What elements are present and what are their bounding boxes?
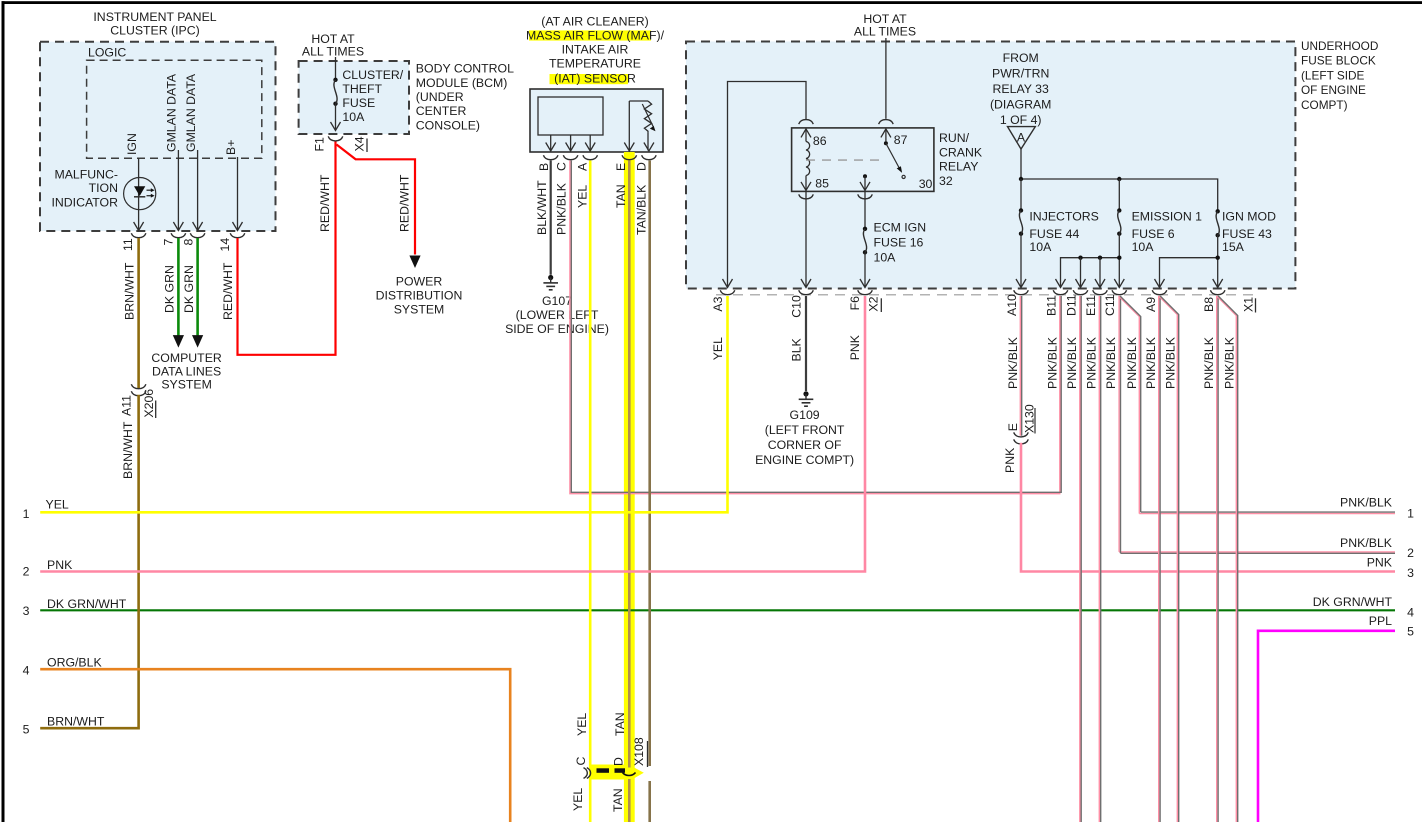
svg-text:(IAT) SENSOR: (IAT) SENSOR — [554, 71, 636, 85]
svg-text:TAN/BLK: TAN/BLK — [634, 184, 648, 235]
wire RED/WHT to power distribution — [337, 145, 416, 255]
svg-text:C11: C11 — [1103, 294, 1117, 316]
svg-text:TION: TION — [89, 181, 118, 195]
svg-text:BLK/WHT: BLK/WHT — [535, 180, 549, 235]
highlight chevron at X108 — [634, 767, 644, 778]
svg-text:G107: G107 — [542, 294, 572, 308]
svg-text:IGN: IGN — [125, 133, 139, 155]
svg-text:MALFUNC-: MALFUNC- — [54, 168, 118, 182]
IAT thermistor branch — [628, 101, 630, 151]
svg-text:CRANK: CRANK — [939, 145, 983, 159]
svg-text:ORG/BLK: ORG/BLK — [47, 656, 102, 670]
relay pin connectors bottom — [799, 194, 814, 199]
wire PPL to row 5 — [1258, 631, 1395, 822]
svg-text:TAN: TAN — [613, 712, 627, 736]
svg-text:COMPT): COMPT) — [1301, 98, 1348, 112]
emission sub-bus — [1061, 258, 1120, 287]
wire YEL A3 to row 1 — [40, 296, 727, 512]
svg-text:MASS AIR FLOW (MAF)/: MASS AIR FLOW (MAF)/ — [526, 29, 665, 43]
page border top — [2, 1, 1422, 4]
svg-text:SYSTEM: SYSTEM — [394, 303, 445, 317]
IAT thermistor resistor — [644, 101, 651, 133]
svg-text:LOGIC: LOGIC — [88, 46, 126, 60]
highlight TAN wire band lower — [624, 780, 635, 823]
svg-text:FUSE: FUSE — [342, 96, 375, 110]
wire hot feed to 87 — [885, 38, 887, 119]
svg-text:INDICATOR: INDICATOR — [52, 196, 119, 210]
wire PNK F6 to row 2 — [40, 296, 865, 572]
svg-text:TAN: TAN — [614, 184, 628, 208]
ign mod fuse 43 — [1216, 209, 1220, 213]
underhood fuse block fill+dashed border — [686, 42, 1295, 289]
ground G107 — [548, 275, 553, 280]
svg-text:POWER: POWER — [396, 275, 443, 289]
wire BLK/WHT — [550, 161, 552, 275]
wire RED/WHT pin14 — [238, 142, 336, 355]
svg-text:BRN/WHT: BRN/WHT — [121, 421, 135, 479]
svg-text:PNK/BLK: PNK/BLK — [1202, 336, 1216, 389]
svg-text:PNK/BLK: PNK/BLK — [1163, 336, 1177, 389]
svg-text:(LOWER LEFT: (LOWER LEFT — [516, 308, 599, 322]
fuse bus — [1021, 179, 1218, 211]
svg-text:ALL TIMES: ALL TIMES — [302, 45, 364, 59]
svg-text:RUN/: RUN/ — [939, 131, 970, 145]
svg-text:10A: 10A — [874, 251, 897, 265]
svg-text:RED/WHT: RED/WHT — [318, 174, 332, 232]
svg-text:MODULE (BCM): MODULE (BCM) — [416, 76, 508, 90]
arrow power distribution — [409, 256, 420, 269]
wire bus to injectors fuse — [1020, 179, 1022, 210]
MAF inner module — [538, 97, 603, 135]
svg-text:PNK/BLK: PNK/BLK — [1340, 495, 1393, 509]
svg-text:IGN MOD: IGN MOD — [1222, 210, 1276, 224]
connector X206 — [131, 384, 146, 389]
svg-text:7: 7 — [161, 239, 175, 246]
svg-text:GMLAN DATA: GMLAN DATA — [165, 73, 179, 152]
svg-text:PNK/BLK: PNK/BLK — [1084, 336, 1098, 389]
svg-text:TAN: TAN — [611, 788, 625, 812]
svg-text:11: 11 — [121, 238, 135, 251]
svg-text:32: 32 — [939, 174, 953, 188]
svg-text:G109: G109 — [790, 408, 820, 422]
arrow computer data 2 — [192, 335, 203, 348]
svg-text:PNK/BLK: PNK/BLK — [1125, 336, 1139, 389]
svg-text:3: 3 — [23, 604, 30, 618]
connector X108 black tick 1 — [597, 768, 610, 773]
arrow computer data 1 — [173, 335, 184, 348]
ground G109 — [803, 391, 808, 396]
wire DK GRN pin7 — [177, 238, 180, 336]
svg-text:2: 2 — [1407, 546, 1414, 560]
wire IGN pin 11 — [138, 158, 140, 230]
svg-text:FUSE BLOCK: FUSE BLOCK — [1301, 54, 1376, 68]
wire PNK/BLK A9 diagonal — [1159, 296, 1178, 822]
emission fuse 6 — [1117, 208, 1121, 212]
svg-text:F1: F1 — [313, 137, 327, 152]
svg-text:ALL TIMES: ALL TIMES — [854, 25, 916, 39]
svg-text:PNK: PNK — [1367, 556, 1393, 570]
svg-text:X4: X4 — [352, 136, 366, 151]
svg-text:10A: 10A — [342, 110, 365, 124]
wire BRN/WHT to row 5 — [40, 395, 138, 728]
svg-text:2: 2 — [23, 565, 30, 579]
svg-text:GMLAN DATA: GMLAN DATA — [184, 73, 198, 152]
svg-text:INTAKE AIR: INTAKE AIR — [562, 43, 629, 57]
svg-text:30: 30 — [919, 177, 933, 191]
wire relay 30 to ECM fuse — [864, 191, 866, 228]
svg-text:RELAY: RELAY — [939, 160, 978, 174]
svg-text:FUSE 16: FUSE 16 — [874, 236, 924, 250]
svg-text:E: E — [614, 163, 628, 171]
svg-text:YEL: YEL — [711, 337, 725, 360]
svg-text:RED/WHT: RED/WHT — [221, 262, 235, 320]
svg-text:SYSTEM: SYSTEM — [161, 377, 212, 391]
svg-text:E: E — [1006, 423, 1020, 431]
svg-text:PNK/BLK: PNK/BLK — [554, 182, 568, 235]
MAF internal wire B — [550, 135, 552, 151]
svg-text:RED/WHT: RED/WHT — [397, 174, 411, 232]
svg-text:PNK/BLK: PNK/BLK — [1144, 336, 1158, 389]
svg-text:SIDE OF ENGINE): SIDE OF ENGINE) — [505, 322, 609, 336]
svg-text:D11: D11 — [1064, 294, 1078, 316]
svg-text:DK GRN: DK GRN — [162, 265, 176, 313]
svg-text:PNK/BLK: PNK/BLK — [1065, 336, 1079, 389]
ECM IGN fuse 16 — [863, 227, 867, 231]
svg-text:5: 5 — [23, 723, 30, 737]
svg-text:DK GRN/WHT: DK GRN/WHT — [1313, 595, 1393, 609]
svg-text:PNK/BLK: PNK/BLK — [1045, 336, 1059, 389]
wire PNK/BLK C11 to row 2 — [1118, 296, 1120, 552]
svg-text:A: A — [1017, 131, 1026, 145]
svg-text:B8: B8 — [1202, 297, 1216, 312]
svg-text:PNK/BLK: PNK/BLK — [1340, 536, 1393, 550]
wire GMLAN pin 7 — [177, 150, 179, 231]
svg-text:ECM IGN: ECM IGN — [874, 221, 927, 235]
wire 86 branch to A3 — [728, 82, 807, 287]
svg-text:CENTER: CENTER — [416, 104, 467, 118]
highlight jog at X108 — [592, 765, 635, 780]
wire PNK/BLK D11 — [1079, 296, 1081, 822]
connector triangle A — [1008, 127, 1036, 149]
svg-text:A10: A10 — [1005, 294, 1019, 316]
svg-text:87: 87 — [894, 133, 908, 147]
svg-text:(LEFT FRONT: (LEFT FRONT — [765, 423, 845, 437]
wire PNK/BLK C11 diagonal to row 1 — [1119, 296, 1140, 514]
injectors fuse 44 — [1019, 208, 1023, 212]
BCM feed wire — [335, 57, 337, 80]
svg-text:YEL: YEL — [571, 788, 585, 811]
svg-text:FUSE 43: FUSE 43 — [1222, 227, 1272, 241]
fuse block pin connectors — [720, 290, 735, 295]
wire TAN MAF E — [628, 161, 631, 768]
svg-text:4: 4 — [1407, 606, 1414, 620]
IPC block fill+dashed border — [40, 42, 276, 231]
svg-text:PPL: PPL — [1369, 614, 1392, 628]
IPC pin connectors — [131, 233, 146, 238]
svg-text:5: 5 — [1407, 625, 1414, 639]
svg-text:CLUSTER (IPC): CLUSTER (IPC) — [110, 24, 200, 38]
ign mod sub-bus — [1160, 258, 1218, 287]
highlight IAT title — [550, 74, 629, 84]
svg-text:YEL: YEL — [575, 713, 589, 736]
svg-text:C: C — [554, 162, 568, 171]
svg-text:PNK: PNK — [848, 334, 862, 360]
connector face dashed line — [716, 294, 1253, 296]
wire PNK/BLK A9 — [1158, 296, 1160, 822]
wire A to fuse bus — [1020, 149, 1022, 179]
svg-text:A3: A3 — [711, 296, 725, 311]
svg-text:PWR/TRN: PWR/TRN — [992, 67, 1049, 81]
connector X108 D arc — [623, 773, 636, 776]
wire PNK/BLK MAF C to B11 — [570, 161, 1060, 494]
svg-text:YEL: YEL — [575, 185, 589, 208]
svg-text:1 OF 4): 1 OF 4) — [1000, 113, 1042, 127]
svg-text:BLK: BLK — [790, 337, 804, 361]
svg-text:A: A — [575, 162, 589, 171]
MAF/IAT sensor box — [530, 89, 663, 152]
svg-text:(DIAGRAM: (DIAGRAM — [990, 98, 1052, 112]
wire YEL MAF A — [589, 161, 592, 823]
svg-text:(LEFT SIDE: (LEFT SIDE — [1301, 68, 1364, 82]
wire row DK GRN/WHT (left 3 / right 4) — [40, 609, 1395, 611]
wire BRN/WHT pin11 to X206 — [137, 238, 140, 389]
wire row2 right PNK/BLK — [1119, 551, 1395, 553]
MAF internal wire A — [589, 135, 591, 151]
wire ORG/BLK row 4 — [40, 669, 510, 822]
LOGIC dashed box — [87, 60, 262, 158]
svg-text:B: B — [537, 163, 551, 171]
wire PNK/BLK B8 — [1216, 296, 1218, 822]
svg-text:EMISSION 1: EMISSION 1 — [1132, 210, 1203, 224]
MAF pin connectors — [543, 155, 558, 160]
svg-text:1: 1 — [23, 507, 30, 521]
svg-text:(UNDER: (UNDER — [416, 90, 464, 104]
svg-text:(AT AIR CLEANER): (AT AIR CLEANER) — [541, 15, 649, 29]
relay switch 87 — [881, 129, 891, 138]
wire PNK/BLK B8 diagonal — [1217, 296, 1237, 822]
svg-text:C10: C10 — [789, 295, 803, 318]
svg-text:F6: F6 — [848, 296, 862, 311]
svg-text:OF ENGINE: OF ENGINE — [1301, 83, 1366, 97]
svg-text:E11: E11 — [1084, 295, 1098, 316]
wire DK GRN pin8 — [196, 238, 199, 336]
svg-text:DISTRIBUTION: DISTRIBUTION — [376, 289, 463, 303]
wire PNK A10 to row 3 — [1021, 443, 1395, 572]
wire B+ pin 14 — [237, 157, 239, 231]
svg-text:THEFT: THEFT — [342, 82, 382, 96]
svg-text:RELAY 33: RELAY 33 — [993, 82, 1049, 96]
svg-text:CONSOLE): CONSOLE) — [416, 119, 480, 133]
svg-text:10A: 10A — [1029, 240, 1052, 254]
svg-text:A11: A11 — [120, 395, 134, 416]
MAF internal wire C — [570, 135, 572, 151]
highlight TAN wire band upper — [624, 152, 635, 765]
svg-text:X1: X1 — [1241, 297, 1255, 312]
highlight MAF title — [529, 30, 651, 40]
malfunction indicator LED — [124, 178, 156, 210]
svg-text:INJECTORS: INJECTORS — [1029, 210, 1098, 224]
svg-text:TEMPERATURE: TEMPERATURE — [549, 57, 641, 71]
relay link dashed — [806, 159, 885, 161]
svg-text:CLUSTER/: CLUSTER/ — [342, 68, 403, 82]
svg-text:D: D — [634, 162, 648, 171]
cluster/theft fuse — [333, 78, 337, 82]
svg-text:CORNER OF: CORNER OF — [768, 438, 842, 452]
BCM pin connector F1 — [328, 136, 343, 141]
svg-text:X2: X2 — [867, 296, 881, 311]
svg-text:BRN/WHT: BRN/WHT — [123, 262, 137, 320]
run/crank relay connectors top — [799, 120, 814, 125]
svg-text:4: 4 — [23, 663, 30, 677]
wire bus to emission fuse — [1118, 179, 1120, 210]
svg-text:D: D — [611, 757, 625, 766]
svg-text:FUSE 44: FUSE 44 — [1029, 227, 1079, 241]
wire GMLAN pin 8 — [197, 150, 199, 231]
wire relay 85 to C10 — [805, 191, 807, 286]
svg-text:B+: B+ — [224, 140, 238, 155]
svg-text:PNK/BLK: PNK/BLK — [1222, 336, 1236, 389]
run/crank relay box — [792, 128, 934, 191]
BCM block fill+dashed border — [299, 61, 409, 134]
svg-text:PNK/BLK: PNK/BLK — [1006, 336, 1020, 389]
svg-text:15A: 15A — [1222, 240, 1245, 254]
svg-text:DK GRN: DK GRN — [182, 265, 196, 313]
svg-text:10A: 10A — [1132, 240, 1155, 254]
svg-text:C: C — [574, 757, 588, 766]
svg-text:X206: X206 — [142, 389, 156, 418]
wire BLK C10 — [805, 296, 807, 391]
svg-text:PNK/BLK: PNK/BLK — [1104, 336, 1118, 389]
connector X108 C half — [584, 768, 588, 779]
svg-text:BODY CONTROL: BODY CONTROL — [416, 62, 514, 76]
svg-text:B11: B11 — [1044, 295, 1058, 316]
svg-text:FUSE 6: FUSE 6 — [1132, 227, 1175, 241]
svg-text:3: 3 — [1407, 566, 1414, 580]
svg-text:PNK: PNK — [1003, 447, 1017, 473]
relay coil — [801, 129, 811, 138]
svg-text:85: 85 — [815, 177, 829, 191]
connector X130 — [1014, 432, 1029, 437]
relay contact 30 — [863, 174, 867, 178]
svg-text:YEL: YEL — [46, 498, 69, 512]
connector X108 black tick 2 — [615, 768, 626, 773]
svg-text:ENGINE COMPT): ENGINE COMPT) — [755, 453, 854, 467]
svg-text:8: 8 — [181, 239, 195, 246]
svg-text:14: 14 — [218, 238, 232, 252]
wire PNK/BLK E11 — [1098, 296, 1100, 822]
svg-text:X108: X108 — [632, 737, 646, 766]
svg-text:1: 1 — [1407, 507, 1414, 521]
svg-text:BRN/WHT: BRN/WHT — [47, 715, 105, 729]
svg-text:DK GRN/WHT: DK GRN/WHT — [47, 597, 127, 611]
svg-text:UNDERHOOD: UNDERHOOD — [1301, 39, 1378, 53]
wire row1 right PNK/BLK — [1139, 513, 1395, 515]
svg-text:PNK: PNK — [47, 558, 73, 572]
svg-text:COMPUTER: COMPUTER — [151, 351, 221, 365]
svg-text:DATA LINES: DATA LINES — [152, 364, 221, 378]
page border left — [2, 1, 5, 822]
svg-text:INSTRUMENT PANEL: INSTRUMENT PANEL — [93, 10, 216, 24]
svg-text:86: 86 — [813, 134, 827, 148]
svg-text:FROM: FROM — [1003, 51, 1039, 65]
wire PNK/BLK A10 to X130 — [1019, 296, 1021, 436]
svg-text:A9: A9 — [1144, 297, 1158, 312]
wire TAN/BLK MAF D — [648, 161, 651, 767]
svg-text:X130: X130 — [1022, 404, 1036, 433]
